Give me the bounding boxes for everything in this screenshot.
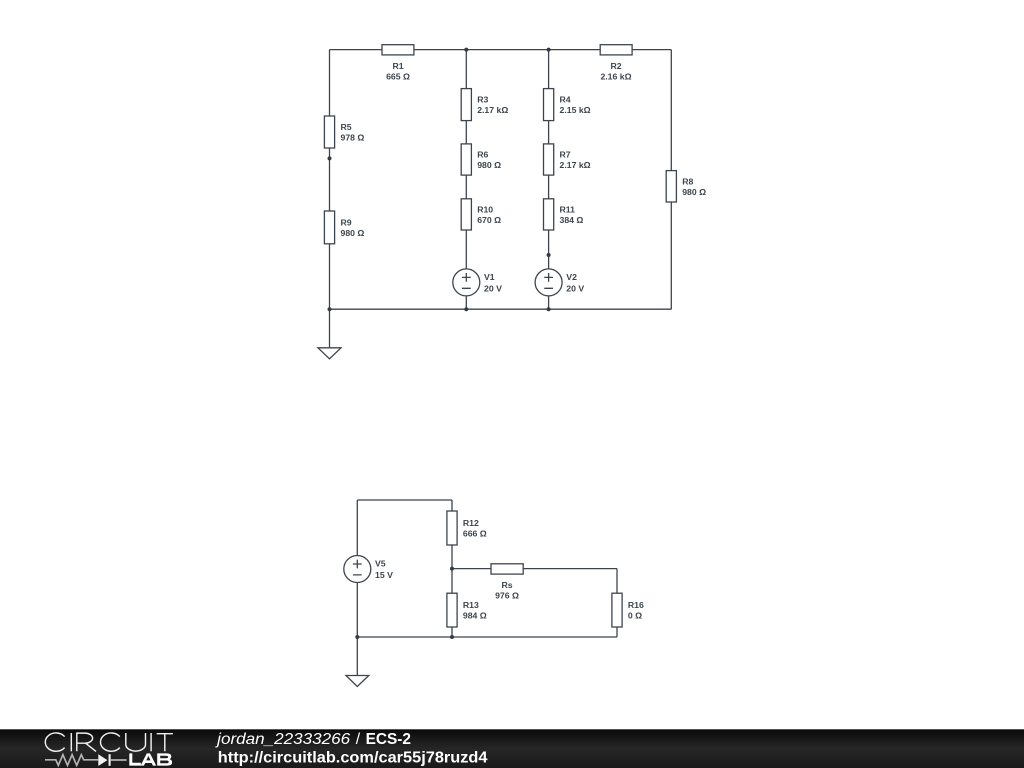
svg-text:/: / — [356, 731, 361, 748]
svg-text:http://circuitlab.com/car55j78: http://circuitlab.com/car55j78ruzd4 — [218, 749, 488, 766]
svg-text:2.16 kΩ: 2.16 kΩ — [600, 71, 631, 81]
svg-text:V2: V2 — [566, 272, 577, 282]
CircuitLab logo resistor zigzag and diode — [45, 754, 127, 766]
wire R12/R13 branch vertical — [451, 500, 453, 637]
footer bar — [0, 729, 1024, 768]
svg-text:0 Ω: 0 Ω — [628, 611, 642, 621]
svg-text:384 Ω: 384 Ω — [560, 215, 584, 225]
node junction dot top rail at branch 2 — [547, 48, 551, 52]
voltage source V2 — [535, 269, 584, 296]
svg-text:978 Ω: 978 Ω — [341, 133, 365, 143]
svg-text:R11: R11 — [560, 205, 576, 215]
resistor Rs — [491, 564, 523, 601]
svg-text:R2: R2 — [610, 61, 621, 71]
svg-text:980 Ω: 980 Ω — [341, 228, 365, 238]
svg-text:980 Ω: 980 Ω — [682, 187, 706, 197]
svg-text:R6: R6 — [477, 150, 488, 160]
resistor R7 — [544, 144, 591, 175]
svg-text:15 V: 15 V — [375, 570, 393, 580]
svg-text:2.17 kΩ: 2.17 kΩ — [477, 105, 508, 115]
svg-text:R4: R4 — [560, 95, 571, 105]
wire bottom circuit bottom rail — [357, 636, 617, 638]
ground top circuit — [318, 309, 341, 359]
wire R16 branch vertical — [616, 569, 618, 637]
node junction dot above V2 — [547, 253, 551, 257]
svg-text:R12: R12 — [463, 518, 479, 528]
svg-text:2.17 kΩ: 2.17 kΩ — [560, 160, 591, 170]
wire right branch vertical — [670, 50, 672, 310]
svg-text:R1: R1 — [392, 61, 403, 71]
wire V5 branch vertical — [356, 500, 358, 637]
wire bottom rail — [330, 308, 672, 310]
resistor R13 — [447, 593, 487, 627]
resistor R6 — [461, 144, 501, 175]
node junction dot bottom rail branch 2 — [547, 307, 551, 311]
svg-text:665 Ω: 665 Ω — [386, 71, 410, 81]
voltage source V5 — [344, 556, 393, 583]
svg-text:R3: R3 — [477, 95, 488, 105]
node A junction dot — [328, 156, 332, 160]
svg-text:R9: R9 — [341, 218, 352, 228]
CircuitLab logo LAB wordmark — [129, 753, 172, 765]
svg-text:976 Ω: 976 Ω — [495, 590, 519, 600]
CircuitLab logo CIRCUIT wordmark — [45, 733, 173, 751]
resistor R16 — [612, 593, 644, 627]
resistor R5 — [324, 116, 364, 148]
svg-text:R7: R7 — [560, 150, 571, 160]
svg-text:V1: V1 — [484, 272, 495, 282]
svg-text:2.15 kΩ: 2.15 kΩ — [560, 105, 591, 115]
resistor R4 — [544, 89, 591, 121]
svg-text:980 Ω: 980 Ω — [477, 160, 501, 170]
wire middle branch 2 vertical — [548, 50, 550, 310]
node junction dot bottom rail left — [328, 307, 332, 311]
svg-text:20 V: 20 V — [484, 283, 502, 293]
wire middle branch 1 vertical — [465, 50, 467, 310]
svg-text:Rs: Rs — [501, 580, 512, 590]
svg-text:R5: R5 — [341, 122, 352, 132]
footer url text — [218, 749, 488, 766]
node junction dot top rail at branch 1 — [464, 48, 468, 52]
resistor R2 — [600, 45, 632, 82]
node junction dot mid rail at R12/R13 — [450, 567, 454, 571]
svg-text:V5: V5 — [375, 559, 386, 569]
wire top rail — [330, 49, 672, 51]
svg-text:R16: R16 — [628, 600, 644, 610]
resistor R3 — [461, 89, 508, 121]
resistor R11 — [544, 199, 584, 230]
svg-text:R13: R13 — [463, 600, 479, 610]
resistor R8 — [666, 171, 706, 202]
footer title text — [215, 731, 411, 748]
node junction dot bottom rail branch 1 — [464, 307, 468, 311]
svg-text:R8: R8 — [682, 176, 693, 186]
svg-text:ECS-2: ECS-2 — [366, 731, 412, 748]
svg-text:984 Ω: 984 Ω — [463, 611, 487, 621]
svg-text:666 Ω: 666 Ω — [463, 529, 487, 539]
svg-text:20 V: 20 V — [566, 283, 584, 293]
ground bottom circuit — [346, 637, 369, 687]
wire middle rail Rs — [452, 568, 617, 570]
voltage source V1 — [453, 269, 502, 296]
svg-text:jordan_22333266: jordan_22333266 — [215, 731, 350, 748]
svg-text:670 Ω: 670 Ω — [477, 215, 501, 225]
node junction dot bottom rail at V5 — [355, 635, 359, 639]
node junction dot bottom rail at R13 — [450, 635, 454, 639]
resistor R10 — [461, 199, 501, 230]
resistor R1 — [382, 45, 414, 82]
wire left branch vertical — [329, 50, 331, 310]
svg-text:R10: R10 — [477, 205, 493, 215]
wire bottom circuit top rail — [357, 499, 452, 501]
resistor R9 — [324, 211, 364, 244]
resistor R12 — [447, 511, 487, 545]
